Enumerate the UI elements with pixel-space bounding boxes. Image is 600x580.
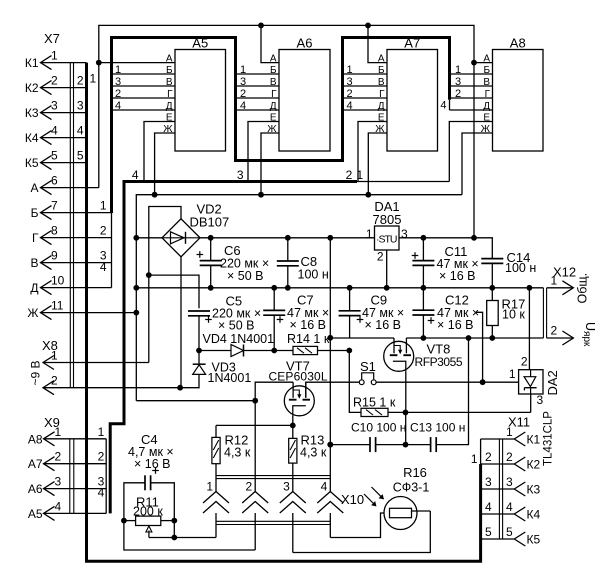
svg-text:2: 2 (98, 450, 105, 464)
A5 Ж-pin wire (155, 133, 175, 195)
svg-text:TL431CLP: TL431CLP (543, 411, 555, 466)
svg-text:3: 3 (283, 480, 290, 494)
junction Ж with GND rail (133, 285, 139, 291)
svg-text:К5: К5 (25, 156, 39, 170)
wire VT7 gate down (292, 416, 294, 426)
svg-text:X7: X7 (44, 31, 60, 46)
svg-text:~9 В: ~9 В (29, 360, 43, 385)
svg-text:R16: R16 (403, 465, 427, 480)
wire VT8 gate down (405, 371, 407, 412)
wire bridge - output down (180, 257, 182, 388)
svg-text:Г: Г (32, 231, 39, 245)
junction C8 top (285, 235, 291, 241)
junction R11 right (171, 518, 177, 524)
svg-text:× 16 В: × 16 В (290, 318, 327, 332)
wire A-net down to +5V rail (473, 63, 475, 238)
riser A6 A-pin (258, 23, 264, 29)
wire C10 line (330, 444, 370, 446)
svg-text:5: 5 (51, 149, 58, 163)
wire A-net top line (99, 25, 474, 187)
connector X11 pin 1 (К1) (481, 438, 515, 440)
junction A-net / +5V rail (471, 235, 477, 241)
wire gate line from Ж (136, 400, 255, 402)
svg-text:× 16 В: × 16 В (134, 457, 171, 471)
svg-text:1: 1 (357, 168, 364, 182)
svg-text:4: 4 (98, 485, 105, 499)
svg-text:4: 4 (100, 260, 107, 274)
resistor R14 1k (274, 350, 293, 352)
junction C10/C13/VT8 gate (403, 442, 409, 448)
svg-text:А6: А6 (28, 482, 43, 496)
svg-text:1: 1 (90, 72, 97, 86)
svg-text:2: 2 (115, 88, 121, 100)
wire column v330 (329, 238, 331, 445)
svg-text:11: 11 (51, 299, 64, 313)
cable double-line X7/X8 (69, 63, 71, 388)
svg-text:Б: Б (31, 206, 39, 220)
A7 segment wires Б В Г Д (344, 73, 387, 75)
harness trunk E-wires + X9 branch (thick) (110, 182, 357, 514)
X11 cable double-line (498, 439, 500, 539)
transistor VT8 RFP3055 (384, 341, 414, 371)
svg-text:Д: Д (30, 281, 38, 295)
wire VT8 gate node to C10/C13 (405, 412, 407, 444)
svg-text:7: 7 (51, 199, 58, 213)
svg-text:5: 5 (506, 525, 513, 539)
display block A6 (279, 50, 330, 152)
wire A5 A-pin (99, 62, 175, 64)
R11 wiper arrow (148, 531, 150, 538)
svg-text:2: 2 (100, 224, 107, 238)
svg-text:К3: К3 (25, 106, 39, 120)
connector X12 pin 1 (Общ) (547, 287, 574, 289)
svg-text:9: 9 (51, 249, 58, 263)
X11 staircase thin (480, 439, 482, 464)
svg-text:3: 3 (455, 76, 461, 88)
svg-text:2: 2 (240, 88, 246, 100)
svg-text:DA2: DA2 (545, 370, 560, 395)
wire R12/R13 node (216, 424, 293, 426)
resistor R15 1k (349, 351, 361, 413)
wire VT8 drain to v330 (330, 337, 394, 339)
junction C11/C12 (421, 285, 427, 291)
svg-text:1: 1 (347, 64, 353, 76)
harness trunk X7 digits staircase (thin) (111, 213, 113, 288)
svg-text:2: 2 (346, 168, 353, 182)
svg-text:× 50 В: × 50 В (218, 319, 255, 333)
A5 segment wires Б В Г Д (112, 73, 176, 75)
junction R13/C10 column (327, 442, 333, 448)
svg-text:К2: К2 (25, 81, 39, 95)
svg-text:К2: К2 (527, 458, 541, 472)
junction C14/R17 (489, 285, 495, 291)
A7 Ж-pin wire (368, 133, 387, 195)
junction A5 Ж (152, 192, 158, 198)
display block A8 (493, 50, 544, 152)
wire C5 top link (149, 275, 199, 308)
svg-text:2: 2 (485, 450, 492, 464)
svg-text:1: 1 (206, 480, 213, 494)
svg-text:6: 6 (51, 174, 58, 188)
svg-text:К3: К3 (527, 483, 541, 497)
junction A6 Ж (258, 192, 264, 198)
svg-text:А: А (30, 181, 38, 195)
junction R11 left (121, 518, 127, 524)
A5 E-pin wire (144, 122, 175, 182)
svg-text:CEP6030L: CEP6030L (269, 370, 328, 384)
resistor R12 4.3k (215, 425, 217, 437)
junction v330 bottom (327, 442, 333, 448)
junction AC1 / C5 line (146, 272, 152, 278)
svg-text:1: 1 (471, 452, 478, 466)
svg-text:1: 1 (240, 64, 246, 76)
wire S1 to V2 to DA2 pin1 (376, 381, 518, 383)
svg-text:2: 2 (77, 74, 84, 88)
diode VD4 1N4001 (199, 350, 231, 352)
svg-text:А: А (483, 54, 490, 65)
svg-text:100 н: 100 н (505, 261, 536, 275)
wire AC1 riser and top link (149, 207, 181, 363)
svg-text:4: 4 (506, 500, 513, 514)
X10 lower cable double-line (216, 520, 330, 522)
svg-text:DB107: DB107 (190, 215, 230, 230)
svg-text:10 к: 10 к (502, 308, 525, 322)
svg-text:1: 1 (366, 227, 373, 241)
connector X11 pin 2 (К2) (481, 463, 515, 465)
wire GND rail (136, 287, 543, 289)
thin E-line continuation to A8 (357, 181, 449, 183)
svg-text:4: 4 (485, 500, 492, 514)
wire DA1 pin2 down (386, 250, 388, 288)
junction C6 bottom (208, 285, 214, 291)
svg-text:10: 10 (51, 274, 65, 288)
svg-text:1: 1 (51, 49, 58, 63)
X10 upper cable double-line (216, 475, 330, 477)
junction C13 branch (466, 335, 472, 341)
shunt regulator DA2 TL431CLP (519, 370, 543, 394)
capacitor C6 (208, 235, 214, 241)
harness trunk display wires (thick top) (112, 38, 450, 214)
svg-text:X10: X10 (341, 492, 364, 507)
svg-text:1: 1 (509, 367, 516, 381)
svg-text:К1: К1 (527, 433, 541, 447)
svg-text:× 16 В: × 16 В (437, 318, 474, 332)
svg-text:А: А (270, 54, 277, 65)
svg-text:Ж: Ж (27, 306, 38, 320)
svg-text:К5: К5 (527, 533, 541, 547)
junction C9 top (347, 285, 353, 291)
svg-text:3: 3 (240, 76, 246, 88)
A8 Ж-pin wire (462, 133, 493, 195)
A6 Ж-pin wire (261, 133, 279, 195)
svg-text:Общ.: Общ. (576, 273, 590, 304)
A8 segment wires Б В Г Д (451, 73, 493, 75)
svg-text:2: 2 (551, 324, 558, 338)
svg-text:К1: К1 (25, 56, 39, 70)
cable double-line X9 (69, 439, 71, 514)
svg-text:2: 2 (55, 450, 62, 464)
svg-text:3: 3 (51, 99, 58, 113)
svg-text:1: 1 (100, 199, 107, 213)
svg-text:·STU: ·STU (376, 234, 398, 246)
junction Ж with X7 pin 11 (133, 310, 139, 316)
svg-text:А5: А5 (28, 507, 43, 521)
A8 E-pin wire (449, 122, 492, 182)
svg-text:S1: S1 (360, 359, 376, 374)
svg-text:В: В (30, 256, 38, 270)
wire A8 A-pin (471, 60, 477, 66)
connector X12 pin 2 (Uярк) (547, 337, 574, 339)
connector X11 pin 5 (К5) (481, 538, 515, 540)
capacitor C8 (287, 238, 289, 261)
svg-text:3: 3 (485, 475, 492, 489)
svg-text:100 н: 100 н (298, 268, 329, 282)
junction Ж with bridge AC (133, 235, 139, 241)
svg-text:К4: К4 (527, 508, 541, 522)
capacitor C14 (481, 258, 503, 260)
svg-text:СФ3-1: СФ3-1 (393, 481, 430, 495)
junction A5 A-wire (96, 60, 102, 66)
wire X10.3 line to R16 (293, 511, 431, 553)
wire X8.2 to VD3 node (43, 387, 180, 389)
svg-text:3: 3 (537, 393, 544, 407)
svg-text:R15 1 к: R15 1 к (353, 396, 396, 410)
junction R13 top (290, 423, 296, 429)
A6 segment wires Б В Г Д (236, 73, 279, 75)
svg-text:8: 8 (51, 224, 58, 238)
wire X10.2 line (124, 521, 255, 550)
junction C7/R14 (271, 348, 277, 354)
A8 D-wire thin stub from harness (449, 100, 451, 110)
transistor VT7 CEP6030L (284, 386, 314, 416)
junction C11 top (421, 235, 427, 241)
svg-text:× 16 В: × 16 В (365, 318, 402, 332)
diode VD3 1N4001 (198, 351, 200, 365)
bridge rectifier VD2 DB107 (162, 219, 200, 257)
wire X10.1 line (149, 537, 216, 539)
svg-text:4: 4 (347, 100, 353, 112)
svg-text:4: 4 (321, 480, 328, 494)
capacitor C10 (369, 437, 371, 452)
wire VT7 drain link (255, 382, 293, 491)
svg-text:А: А (166, 54, 173, 65)
svg-text:C13 100 н: C13 100 н (410, 421, 465, 435)
svg-text:VD4 1N4001: VD4 1N4001 (203, 332, 275, 346)
wire DA1 output rail (399, 237, 474, 239)
svg-text:4: 4 (240, 100, 246, 112)
wire Ж common line (136, 195, 462, 401)
svg-text:A6: A6 (297, 36, 313, 51)
svg-text:3: 3 (237, 168, 244, 182)
svg-text:1: 1 (115, 64, 121, 76)
regulator DA1 7805 (375, 226, 400, 250)
junction C8 bottom (285, 285, 291, 291)
svg-text:RFP3055: RFP3055 (415, 355, 463, 369)
svg-text:A7: A7 (404, 36, 420, 51)
svg-text:1: 1 (55, 425, 62, 439)
svg-text:3: 3 (506, 475, 513, 489)
junction gate line (252, 398, 258, 404)
capacitor C9 (349, 288, 351, 311)
A6 E-pin wire (248, 122, 279, 182)
svg-text:А: А (378, 54, 385, 65)
capacitor C11 (422, 238, 424, 261)
svg-text:× 50 В: × 50 В (227, 269, 264, 283)
photoresistor R16 СФ3-1 (384, 497, 417, 530)
display block A5 (175, 50, 226, 152)
svg-text:4,3 к: 4,3 к (224, 446, 251, 460)
svg-text:3: 3 (347, 76, 353, 88)
connector X11 pin 4 (К4) (481, 513, 515, 515)
svg-text:1N4001: 1N4001 (208, 371, 252, 385)
svg-text:2: 2 (506, 450, 513, 464)
svg-text:3: 3 (77, 99, 84, 113)
svg-text:1: 1 (551, 274, 558, 288)
svg-text:5: 5 (485, 525, 492, 539)
svg-text:К4: К4 (25, 131, 39, 145)
junction R-column top (327, 235, 333, 241)
svg-text:2: 2 (377, 250, 384, 264)
svg-text:A5: A5 (192, 36, 208, 51)
svg-text:5: 5 (77, 149, 84, 163)
svg-text:2: 2 (246, 480, 253, 494)
wire v330 through X10.4 (329, 445, 331, 492)
svg-text:1: 1 (455, 64, 461, 76)
svg-text:4: 4 (440, 100, 446, 112)
svg-text:3: 3 (401, 227, 408, 241)
junction DA2 pin2 (527, 285, 533, 291)
connector X11 pin 3 (К3) (481, 488, 515, 490)
junction C4 right riser (171, 535, 177, 541)
junction R17 bottom (489, 335, 495, 341)
VD2 inner diode (171, 232, 185, 244)
svg-text:2: 2 (455, 88, 461, 100)
A7 E-pin wire (358, 122, 387, 182)
svg-text:3: 3 (115, 76, 121, 88)
svg-text:3: 3 (55, 475, 62, 489)
junction VD3/X8.2/bridge (177, 385, 183, 391)
X12 cable double-line (542, 288, 544, 338)
junction DA1 pin2 (384, 285, 390, 291)
svg-text:А7: А7 (28, 457, 43, 471)
svg-text:1: 1 (506, 425, 513, 439)
R16 light arrows (372, 487, 384, 499)
wire X8.1 to AC riser (43, 362, 149, 364)
display block A7 (387, 50, 438, 152)
svg-text:C10 100 н: C10 100 н (351, 421, 406, 435)
junction C12 bottom (421, 335, 427, 341)
svg-text:R14 1 к: R14 1 к (287, 332, 330, 346)
svg-text:A8: A8 (510, 36, 526, 51)
junction C5/VD3/VD4 (196, 348, 202, 354)
junction R15/VT8 gate (403, 410, 409, 416)
junction C7 top (271, 285, 277, 291)
svg-text:2: 2 (347, 88, 353, 100)
svg-text:2: 2 (521, 355, 528, 369)
harness trunk X7 to X11 (thick) (87, 63, 481, 562)
X9 harness staircase thin (105, 439, 107, 514)
svg-text:4: 4 (132, 168, 139, 182)
junction R14/S1/R15 (346, 348, 352, 354)
wire DA2 pin3 down (530, 394, 532, 412)
capacitor C13 (406, 444, 431, 446)
capacitor C7 (273, 288, 275, 311)
capacitor C5 (188, 310, 210, 312)
svg-text:4: 4 (55, 499, 62, 513)
wire VT8 source / Uark line (406, 337, 543, 339)
svg-text:× 16 В: × 16 В (439, 269, 476, 283)
wire bridge + output right (200, 237, 375, 239)
svg-text:А8: А8 (28, 432, 43, 446)
wire bridge AC left (136, 237, 162, 239)
wire rail1 right end to C14 (474, 238, 492, 258)
riser A7 A-pin (365, 23, 371, 29)
wire VT7 source to S1 (306, 382, 359, 398)
junction V2/382-line (480, 379, 486, 385)
wire V2 link (475, 312, 482, 382)
svg-text:4: 4 (115, 100, 121, 112)
svg-text:1: 1 (51, 349, 58, 363)
svg-text:7805: 7805 (373, 212, 402, 227)
svg-text:4: 4 (51, 124, 58, 138)
junction v330 / Uark branch (327, 335, 333, 341)
wire X10.4 line to R16 left (330, 513, 384, 538)
resistor R13 4.3k (289, 438, 297, 463)
resistor R17 (491, 288, 493, 301)
wire DA2 pin2 up (528, 288, 530, 370)
svg-text:2: 2 (51, 374, 58, 388)
svg-text:4: 4 (77, 124, 84, 138)
junction A7 Ж (365, 192, 371, 198)
svg-text:1: 1 (98, 425, 105, 439)
svg-text:2: 2 (51, 74, 58, 88)
svg-text:4,3 к: 4,3 к (300, 446, 327, 460)
capacitor C12 (422, 288, 424, 310)
